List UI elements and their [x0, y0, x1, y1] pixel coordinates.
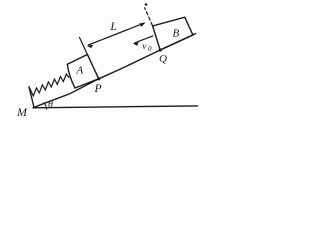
svg-text:P: P: [94, 83, 102, 95]
v0 velocity arrow: [135, 36, 153, 43]
svg-text:0: 0: [148, 45, 152, 53]
node Q dot: [159, 48, 162, 51]
dot above dashed line: [145, 3, 148, 6]
svg-text:M: M: [16, 105, 28, 119]
guide line above P (extension of A right edge): [80, 38, 88, 55]
angle arc theta: [44, 103, 47, 110]
svg-text:B: B: [173, 28, 180, 40]
svg-text:v: v: [142, 42, 147, 52]
arrowhead v0: [133, 42, 139, 45]
svg-text:L: L: [109, 19, 117, 33]
spring: [29, 74, 69, 96]
block A: [67, 55, 98, 89]
svg-text:θ: θ: [48, 100, 53, 111]
arrowhead L left: [87, 45, 93, 48]
incline surface: [34, 34, 196, 108]
ground base line: [33, 106, 198, 108]
dashed reference line above Q: [145, 8, 153, 26]
node P dot: [97, 77, 100, 80]
L dimension arrow: [88, 23, 144, 45]
wall stop at bottom of incline: [29, 87, 34, 107]
arrowhead L right: [139, 23, 145, 27]
svg-text:Q: Q: [159, 53, 167, 65]
svg-text:A: A: [76, 65, 84, 77]
block B: [153, 17, 193, 50]
